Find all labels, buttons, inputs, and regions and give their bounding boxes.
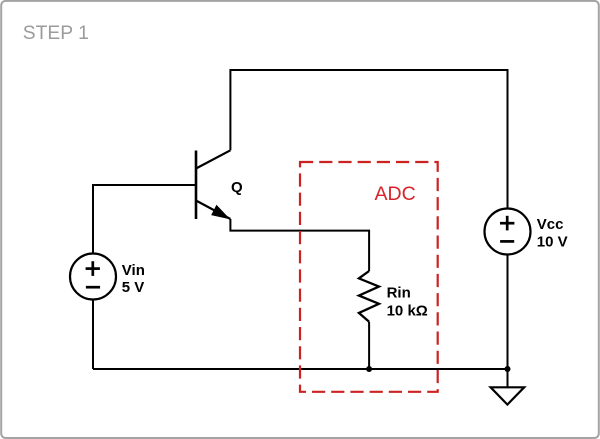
ground bbox=[491, 369, 525, 405]
transistor Q bbox=[196, 150, 230, 219]
wire emitter to resistor top bbox=[230, 219, 369, 271]
svg-text:Vin: Vin bbox=[122, 262, 145, 279]
label Rin 10 kOhm bbox=[387, 284, 428, 319]
label Vcc 10 V bbox=[537, 216, 568, 250]
wire collector to top rail to Vcc top bbox=[230, 70, 507, 209]
junction node at resistor/bottom rail bbox=[366, 366, 372, 372]
svg-text:ADC: ADC bbox=[375, 183, 416, 205]
svg-text:10 V: 10 V bbox=[537, 233, 568, 250]
svg-text:STEP 1: STEP 1 bbox=[23, 23, 89, 44]
svg-text:Q: Q bbox=[231, 179, 243, 196]
junction node at Vcc/bottom rail bbox=[505, 366, 511, 372]
ADC dashed box bbox=[300, 162, 438, 392]
resistor Rin bbox=[359, 271, 379, 322]
wire Vcc bottom to bottom rail bbox=[507, 255, 509, 370]
wire bottom rail bbox=[93, 368, 508, 370]
wire Vin top to transistor base bbox=[93, 185, 196, 254]
wire Vin bottom to bottom rail bbox=[92, 300, 94, 370]
voltage source Vcc bbox=[485, 209, 531, 255]
svg-text:Rin: Rin bbox=[387, 284, 411, 301]
svg-text:10 kΩ: 10 kΩ bbox=[387, 302, 428, 319]
voltage source Vin bbox=[70, 254, 116, 300]
wire resistor bottom to bottom rail bbox=[368, 322, 370, 369]
svg-text:Vcc: Vcc bbox=[537, 216, 564, 233]
svg-text:5 V: 5 V bbox=[122, 279, 145, 296]
label Vin 5 V bbox=[122, 262, 145, 296]
